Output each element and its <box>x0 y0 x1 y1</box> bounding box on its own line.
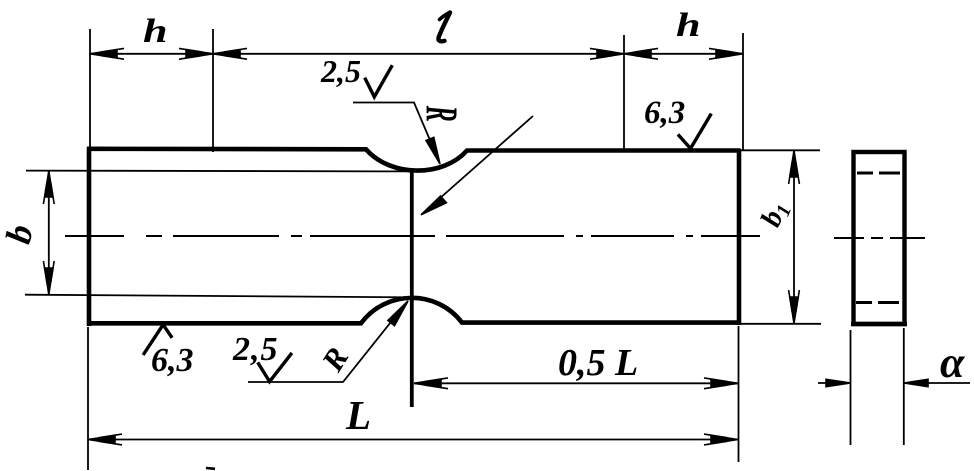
a arrows <box>826 379 851 386</box>
svg-text:h: h <box>143 12 168 50</box>
svg-text:6,3: 6,3 <box>151 342 194 379</box>
label l top (hand-drawn cursive) <box>438 13 450 42</box>
b1 dimension line <box>793 151 795 324</box>
svg-text:α: α <box>940 338 965 387</box>
specimen mid vertical line <box>410 172 414 408</box>
svg-text:R: R <box>417 105 467 122</box>
diagonal leader arrow <box>421 196 446 215</box>
L dimension line <box>88 439 738 441</box>
roughness check bottom 2,5 <box>258 353 292 382</box>
svg-text:b: b <box>0 221 41 247</box>
0,5L arrows <box>414 378 448 389</box>
0,5L dimension line <box>414 382 738 384</box>
svg-text:h: h <box>676 6 701 44</box>
b dimension line left <box>48 171 50 294</box>
side view outline <box>851 152 907 324</box>
svg-text:2,5: 2,5 <box>320 53 361 89</box>
a dimension lines <box>818 382 850 384</box>
roughness check bottom left 6,3 <box>143 325 172 355</box>
roughness check top right 6,3 <box>678 114 711 149</box>
label h left <box>143 12 168 50</box>
svg-text:2,5: 2,5 <box>232 331 279 368</box>
b1 extension lines right <box>740 149 820 151</box>
svg-text:6,3: 6,3 <box>644 95 685 131</box>
label h right <box>676 6 701 44</box>
arrowheads <box>43 48 928 445</box>
label R bottom <box>314 341 355 378</box>
bottom extension lines <box>88 326 739 470</box>
side view hidden line top <box>857 172 900 175</box>
dimension extension lines top <box>90 29 743 152</box>
label b1 right <box>755 197 796 232</box>
specimen outline main view <box>87 147 741 326</box>
L arrows <box>88 434 122 445</box>
b arrows <box>43 171 54 204</box>
small mark bottom left <box>206 467 215 470</box>
svg-text:L: L <box>345 392 371 438</box>
R leader top <box>353 103 438 160</box>
R top arrow <box>426 137 440 164</box>
label b left <box>0 221 41 247</box>
top dimension line h l h <box>90 53 743 55</box>
b extension line bottom <box>25 295 402 298</box>
svg-text:0,5 L: 0,5 L <box>558 342 638 384</box>
bottom R arrow <box>388 301 408 326</box>
side view hidden line bottom <box>856 301 899 304</box>
bottom R leader <box>248 303 407 383</box>
long diagonal leader <box>422 116 533 214</box>
b extension line top <box>26 170 411 173</box>
a extension lines <box>850 330 852 445</box>
top dim arrow left h <box>90 48 124 59</box>
label R top <box>417 105 467 122</box>
svg-text:R: R <box>314 341 355 378</box>
b1 arrows <box>789 151 800 185</box>
center axis line side view <box>834 237 925 239</box>
center axis line main view <box>65 235 760 237</box>
roughness check top 2,5 <box>365 65 393 97</box>
